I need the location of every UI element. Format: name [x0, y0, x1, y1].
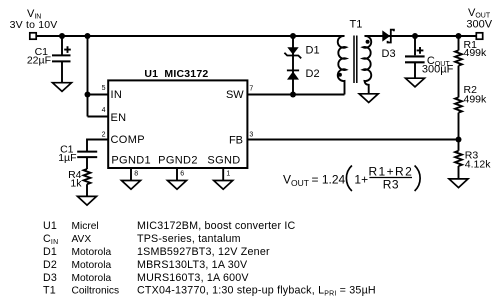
svg-text:Micrel: Micrel: [72, 221, 99, 232]
svg-text:U1 MIC3172: U1 MIC3172: [144, 68, 208, 80]
svg-text:PGND1: PGND1: [111, 155, 151, 167]
svg-text:TPS-series, tantalum: TPS-series, tantalum: [137, 233, 241, 245]
svg-text:1µF: 1µF: [58, 152, 76, 164]
svg-text:4: 4: [102, 107, 106, 114]
svg-text:Coiltronics: Coiltronics: [72, 286, 120, 297]
svg-text:AVX: AVX: [72, 234, 92, 245]
svg-text:PGND2: PGND2: [158, 155, 198, 167]
svg-text:SW: SW: [226, 89, 244, 101]
svg-text:D3: D3: [382, 48, 396, 60]
svg-text:Motorola: Motorola: [72, 247, 112, 258]
svg-text:Motorola: Motorola: [72, 260, 112, 271]
svg-text:1+: 1+: [354, 173, 368, 187]
svg-text:Motorola: Motorola: [72, 273, 112, 284]
svg-text:D1: D1: [43, 246, 57, 258]
svg-text:7: 7: [249, 86, 253, 93]
svg-text:CTX04-13770, 1:30 step-up flyb: CTX04-13770, 1:30 step-up flyback, LPRI …: [137, 285, 376, 297]
svg-text:2: 2: [102, 132, 106, 139]
svg-text:MIC3172BM, boost converter IC: MIC3172BM, boost converter IC: [137, 220, 296, 232]
svg-text:300V: 300V: [466, 18, 492, 30]
svg-text:COMP: COMP: [111, 134, 145, 146]
svg-text:5: 5: [102, 85, 106, 92]
svg-text:= 1.24: = 1.24: [312, 173, 346, 187]
svg-text:R1+R2: R1+R2: [368, 164, 413, 178]
svg-text:EN: EN: [111, 112, 127, 124]
svg-text:3V to 10V: 3V to 10V: [10, 19, 58, 31]
svg-text:MBRS130LT3, 1A 30V: MBRS130LT3, 1A 30V: [137, 259, 248, 271]
svg-text:499k: 499k: [464, 47, 488, 59]
svg-text:22µF: 22µF: [27, 55, 51, 67]
svg-text:6: 6: [180, 171, 184, 178]
svg-text:1SMB5927BT3, 12V Zener: 1SMB5927BT3, 12V Zener: [137, 246, 270, 258]
svg-text:D2: D2: [306, 68, 320, 80]
svg-text:499k: 499k: [464, 93, 488, 105]
svg-text:1: 1: [226, 171, 230, 178]
svg-text:T1: T1: [350, 19, 363, 31]
svg-text:U1: U1: [43, 220, 57, 232]
svg-text:D3: D3: [43, 272, 57, 284]
svg-text:VOUT: VOUT: [283, 173, 309, 189]
svg-text:D2: D2: [43, 259, 57, 271]
svg-text:4.12k: 4.12k: [465, 158, 491, 170]
svg-text:3: 3: [249, 132, 253, 139]
svg-text:T1: T1: [43, 285, 56, 297]
svg-text:CIN: CIN: [43, 233, 58, 246]
svg-text:300µF: 300µF: [422, 64, 454, 76]
svg-text:IN: IN: [111, 89, 123, 101]
svg-text:8: 8: [134, 171, 138, 178]
svg-text:MURS160T3, 1A 600V: MURS160T3, 1A 600V: [137, 272, 249, 284]
svg-text:SGND: SGND: [207, 155, 240, 167]
svg-text:D1: D1: [306, 45, 320, 57]
svg-text:R3: R3: [383, 178, 399, 192]
svg-text:FB: FB: [229, 134, 243, 146]
svg-text:1k: 1k: [70, 178, 82, 190]
